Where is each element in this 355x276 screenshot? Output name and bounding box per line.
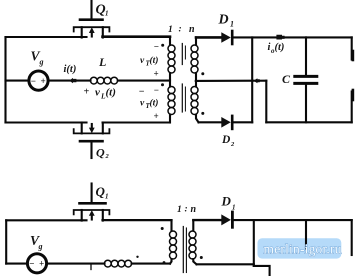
wire: D2 output vertical up to top rail	[251, 37, 253, 122]
wire: bottom middle wire left edge to Vg	[6, 263, 27, 265]
transistor Q1	[74, 1, 110, 38]
wire: bottom rail right segment (Q2 to primary bottom)	[103, 122, 171, 124]
wire: rail right segment to primary top	[103, 219, 172, 221]
source stub	[81, 27, 83, 37]
svg-text:1: 1	[177, 205, 182, 215]
svg-text:merlin-igor.ru: merlin-igor.ru	[264, 242, 342, 257]
body arrow	[91, 124, 93, 129]
diode D2	[221, 116, 232, 129]
drain stub	[102, 123, 104, 134]
wire: inductor to primary bottom	[132, 263, 170, 265]
svg-text:(t): (t)	[106, 87, 116, 99]
wire: right edge vertical (bottom circuit)	[351, 220, 353, 255]
svg-text:−: −	[154, 42, 159, 52]
svg-text:D: D	[218, 13, 229, 28]
svg-text:Q: Q	[96, 146, 105, 160]
svg-text:+: +	[154, 111, 159, 121]
svg-text:1: 1	[230, 20, 234, 29]
body arrow	[91, 214, 93, 219]
wire: top rail right segment (Q1 drain to primary top)	[103, 35, 171, 38]
transformer: primary winding 1	[168, 37, 175, 81]
wire: left vertical of input loop (bottom circuit)	[5, 220, 7, 263]
load R stub marks lower	[352, 90, 355, 100]
svg-text:+: +	[39, 259, 44, 269]
svg-text:1: 1	[105, 193, 109, 201]
inductor L	[90, 77, 117, 84]
wire: middle wire Vg to inductor	[48, 80, 90, 82]
tick on wire	[90, 265, 92, 270]
svg-text:−: −	[31, 76, 36, 86]
svg-text:1: 1	[105, 10, 109, 18]
svg-text:+: +	[154, 69, 159, 79]
channel bar with end hooks	[74, 129, 110, 133]
svg-text:Q: Q	[96, 184, 106, 199]
svg-text:L: L	[98, 55, 106, 69]
wire: bottom rail left segment	[6, 121, 87, 123]
watermark box	[258, 238, 342, 258]
svg-text:1: 1	[168, 25, 173, 35]
wire: bottom output rail	[266, 121, 351, 123]
polarity dot secondary 2	[201, 112, 204, 115]
svg-text:(t): (t)	[150, 98, 159, 109]
channel bar with end hooks	[74, 210, 110, 214]
body arrow	[91, 32, 93, 37]
wire: secondary top to D1	[196, 36, 221, 39]
wire: middle wire from left edge to Vg	[6, 80, 29, 82]
svg-text:(t): (t)	[275, 42, 285, 53]
diode D1 (bottom)	[221, 212, 232, 227]
wire: Vg to inductor	[47, 263, 105, 265]
capacitor C	[295, 37, 317, 122]
transistor Q2	[74, 123, 110, 159]
transformer core (bottom)	[183, 227, 186, 273]
transformer: secondary winding 2	[191, 81, 199, 122]
drain stub	[102, 27, 104, 37]
svg-text::: :	[185, 205, 188, 215]
svg-text:2: 2	[230, 141, 235, 148]
polarity dot primary 1	[161, 44, 164, 47]
svg-text:1: 1	[232, 204, 236, 212]
svg-text:g: g	[39, 58, 44, 67]
arrow i_o(t) on output rail	[276, 35, 284, 40]
gate bar	[80, 140, 103, 143]
wire: secondary return to jog	[197, 263, 254, 265]
channel bar with end hooks	[74, 27, 110, 31]
wire: jog to down lead	[254, 266, 270, 276]
drain stub	[102, 210, 104, 221]
svg-text:−: −	[29, 259, 34, 269]
arrow on center tap wire	[254, 78, 260, 83]
source stub	[81, 210, 83, 221]
svg-text:+: +	[41, 76, 46, 86]
gate bar	[80, 18, 103, 21]
svg-text:D: D	[221, 134, 231, 146]
wire: rail left segment	[6, 219, 86, 221]
wire: right edge lower segment	[351, 92, 353, 123]
svg-text:C: C	[282, 72, 291, 86]
wire: D1 to right edge (bottom rail)	[232, 219, 351, 221]
wire: secondary center tap to drop	[196, 80, 266, 82]
polarity dot secondary 1	[201, 72, 204, 75]
transformer primary (bottom circuit)	[170, 220, 177, 264]
wire: center tap drop to bottom output rail	[265, 81, 267, 123]
svg-text:v: v	[140, 99, 145, 109]
polarity dot primary 2	[161, 83, 164, 86]
svg-text:−: −	[154, 85, 159, 95]
polarity dot primary (bottom)	[161, 227, 164, 230]
svg-text:+: +	[84, 87, 90, 98]
wire: top output rail D1 to right edge	[232, 36, 352, 38]
polarity dot secondary (bottom)	[200, 256, 203, 259]
inductor (bottom)	[104, 260, 131, 267]
wire: D2 to vertical riser	[232, 121, 252, 123]
speck after inductor	[136, 256, 138, 258]
load R stub marks upper	[352, 51, 355, 60]
wire: left vertical of input loop	[4, 37, 6, 123]
capacitor lead (bottom, over watermark)	[305, 220, 307, 248]
svg-text:g: g	[38, 242, 43, 251]
svg-text:v: v	[140, 56, 145, 66]
svg-text::: :	[179, 25, 182, 35]
gate lead	[91, 184, 93, 203]
transformer secondary (bottom circuit)	[189, 220, 197, 264]
wire: middle wire inductor to primary center tap	[118, 80, 170, 82]
wire: vertical riser from rail (bottom)	[253, 220, 255, 266]
svg-text:i(t): i(t)	[64, 64, 77, 75]
diode D1	[221, 31, 232, 44]
wire: secondary bottom to D2	[199, 121, 222, 123]
arrow i(t) on middle wire	[69, 78, 76, 83]
source stub	[81, 123, 83, 134]
svg-text:v: v	[95, 87, 100, 99]
svg-text:n: n	[189, 24, 195, 35]
gate lead	[90, 141, 92, 158]
wire: secondary top to D1 (bottom)	[193, 219, 221, 221]
svg-text:2: 2	[105, 153, 110, 160]
svg-text:−: −	[139, 87, 145, 98]
transformer: primary winding 2	[168, 81, 175, 123]
transformer core	[182, 44, 185, 113]
wire: right edge upper segment (to load R, cut off)	[351, 37, 353, 59]
voltage source Vg (bottom)	[27, 254, 46, 273]
speck on wire near primary	[163, 261, 166, 264]
voltage source Vg	[29, 71, 48, 90]
svg-text:(t): (t)	[150, 55, 159, 66]
gate lead	[90, 1, 92, 19]
svg-text:n: n	[191, 204, 197, 215]
transistor Q1 (bottom circuit)	[74, 184, 110, 221]
svg-text:D: D	[221, 194, 232, 209]
wire: top rail left segment (left corner to Q1 source)	[6, 36, 87, 38]
transformer: secondary winding 1	[191, 37, 198, 81]
gate bar	[80, 202, 106, 205]
